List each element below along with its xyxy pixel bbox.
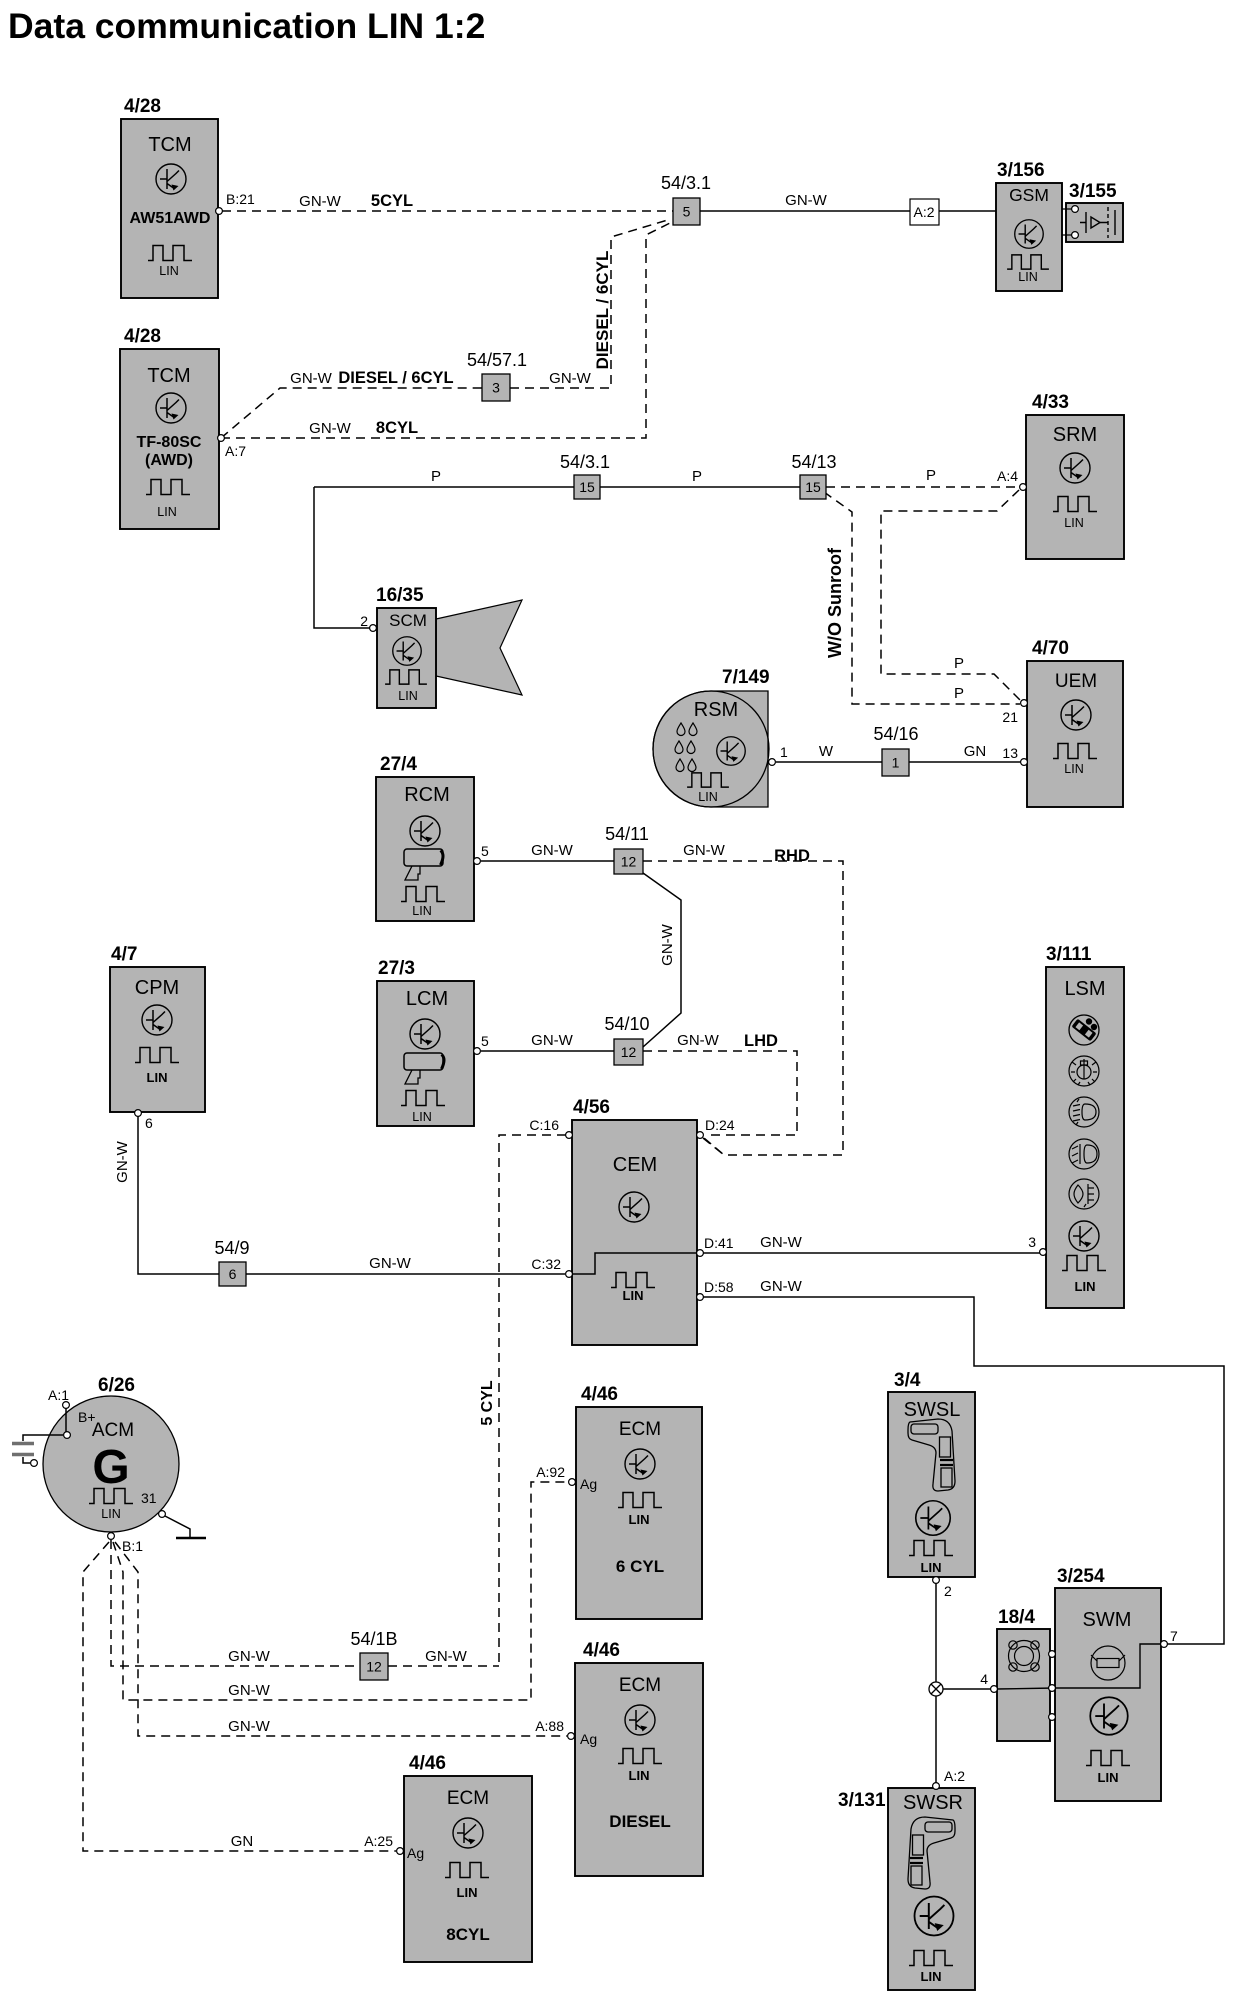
LIN square-wave icon GSM: [1007, 255, 1049, 269]
transistor icon CEM: [619, 1192, 649, 1222]
svg-text:GN-W: GN-W: [299, 193, 341, 210]
icon 18/4 steering wheel: [1009, 1641, 1040, 1672]
svg-text:LIN: LIN: [1064, 762, 1083, 776]
svg-text:7/149: 7/149: [722, 667, 770, 688]
pin ECM 6CYL A:92: [569, 1479, 576, 1486]
svg-text:D:58: D:58: [704, 1279, 734, 1295]
LIN square-wave icon TCM 4/28: [148, 246, 192, 261]
svg-text:12: 12: [366, 1659, 382, 1675]
svg-text:GN-W: GN-W: [683, 842, 725, 859]
svg-text:GN-W: GN-W: [290, 370, 332, 387]
svg-text:GN-W: GN-W: [228, 1682, 270, 1699]
icon raindrops: [677, 723, 685, 736]
svg-text:5: 5: [683, 204, 691, 220]
wire GN-W 5CYL from CEM C:16 down left side: [499, 1135, 566, 1666]
connector 54/13 pin 15: [800, 475, 826, 499]
svg-text:B:21: B:21: [226, 191, 255, 207]
svg-text:A:1: A:1: [48, 1387, 69, 1403]
svg-text:LIN: LIN: [1075, 1279, 1096, 1294]
svg-text:B:1: B:1: [122, 1538, 143, 1554]
pin RSM 1: [769, 759, 776, 766]
svg-text:3/156: 3/156: [997, 160, 1045, 181]
svg-text:GN-W: GN-W: [549, 370, 591, 387]
transistor icon SWM: [1090, 1697, 1128, 1735]
transistor icon LSM: [1069, 1221, 1099, 1251]
wire GN-W from ACM B:1 to ECM-6CYL A:92: [113, 1482, 568, 1700]
svg-text:54/16: 54/16: [873, 724, 918, 744]
svg-text:LIN: LIN: [1064, 516, 1083, 530]
svg-text:54/9: 54/9: [214, 1238, 249, 1258]
pin SCM 2: [370, 625, 377, 632]
module GSM 3/156: [996, 183, 1062, 291]
svg-text:ECM: ECM: [619, 1675, 661, 1696]
svg-text:GN-W: GN-W: [425, 1648, 467, 1665]
module RCM 27/4: [376, 777, 474, 921]
svg-text:13: 13: [1002, 745, 1018, 761]
icon 3/155 clutch/diode symbol: [1080, 207, 1115, 238]
icon SWSL steering wheel stalk: [908, 1419, 955, 1491]
transistor icon SWSL: [916, 1501, 951, 1536]
svg-text:A:25: A:25: [364, 1833, 393, 1849]
module SWM 3/254: [1055, 1588, 1161, 1801]
svg-text:12: 12: [621, 1044, 637, 1060]
svg-text:4: 4: [980, 1671, 988, 1687]
svg-text:GN-W: GN-W: [760, 1234, 802, 1251]
svg-text:D:24: D:24: [705, 1117, 735, 1133]
wire GN-W link from connector 54/11 to connector 54/10: [643, 873, 681, 1047]
svg-text:A:4: A:4: [997, 468, 1018, 484]
module LSM 3/111: [1046, 967, 1124, 1308]
wire GN from ACM B:1 to ECM-8CYL A:25: [83, 1542, 396, 1851]
wire P from connector 54/13 to SRM A:4: [826, 486, 1019, 488]
svg-text:27/3: 27/3: [378, 958, 415, 979]
svg-text:31: 31: [141, 1490, 157, 1506]
transistor icon ECM 8CYL: [453, 1818, 483, 1848]
svg-text:LIN: LIN: [398, 689, 417, 703]
LIN square-wave icon LCM: [401, 1091, 445, 1106]
svg-text:LIN: LIN: [1018, 270, 1037, 284]
wire GN-W LHD from connector 54/10 to CEM D:24: [643, 1051, 797, 1135]
svg-text:A:88: A:88: [535, 1718, 564, 1734]
svg-text:3: 3: [1028, 1234, 1036, 1250]
svg-text:1: 1: [780, 744, 788, 760]
wire GN-W from CEM D:41 to LSM pin 3: [703, 1252, 1041, 1254]
module SCM 16/35: [377, 608, 436, 708]
transistor icon SWSR: [915, 1897, 954, 1936]
svg-text:GN-W: GN-W: [785, 192, 827, 209]
wire from SWSL pin 2 to junction: [935, 1581, 937, 1682]
connector A:2 (inline): [910, 199, 939, 225]
svg-text:LIN: LIN: [159, 264, 178, 278]
wire GN-W from RCM pin 5 to connector 54/11: [481, 860, 614, 862]
svg-text:27/4: 27/4: [380, 754, 417, 775]
svg-text:5: 5: [481, 843, 489, 859]
module SCM 16/35 horn polygon: [436, 600, 522, 695]
transistor icon SCM: [393, 637, 422, 666]
svg-text:LIN: LIN: [412, 1110, 431, 1124]
icon SWM heated steering wheel: [1091, 1646, 1125, 1680]
svg-text:3/4: 3/4: [894, 1370, 921, 1391]
svg-text:54/3.1: 54/3.1: [560, 452, 610, 472]
svg-text:GN-W: GN-W: [531, 1032, 573, 1049]
icon RCM crash sensor: [404, 849, 443, 880]
svg-text:LIN: LIN: [1098, 1770, 1119, 1785]
wire GN-W 5CYL from TCM1 B:21 to connector 54/3.1 pin 5: [222, 210, 673, 212]
svg-text:W/O Sunroof: W/O Sunroof: [825, 547, 845, 658]
pin TCM2 A:7: [218, 435, 225, 442]
svg-text:DIESEL / 6CYL: DIESEL / 6CYL: [338, 369, 453, 387]
module RSM 7/149 (rain sensor, circle shape): [653, 691, 768, 807]
transistor icon ECM 6CYL: [625, 1449, 655, 1479]
pin GSM right upper: [1072, 206, 1079, 213]
pin CEM D:24: [697, 1132, 704, 1139]
svg-text:LIN: LIN: [412, 904, 431, 918]
svg-text:GN-W: GN-W: [531, 842, 573, 859]
LIN square-wave icon ECM 8CYL: [445, 1863, 489, 1878]
svg-text:SWM: SWM: [1083, 1609, 1132, 1631]
svg-text:4/70: 4/70: [1032, 638, 1069, 659]
svg-text:6/26: 6/26: [98, 1375, 135, 1396]
svg-text:LIN: LIN: [921, 1560, 942, 1575]
svg-text:GSM: GSM: [1009, 185, 1049, 205]
module CPM 4/7: [110, 967, 205, 1112]
wire GN-W from connector 54/1B to 5CYL riser: [388, 1665, 499, 1667]
wire GN-W from ACM B:1 to ECM-DIESEL A:88: [115, 1542, 567, 1736]
pin CEM D:58: [697, 1294, 704, 1301]
pin SWSR A:2: [933, 1783, 940, 1790]
svg-text:D:41: D:41: [704, 1235, 734, 1251]
LIN square-wave icon CPM: [135, 1048, 179, 1063]
svg-text:RHD: RHD: [774, 847, 810, 865]
module UEM 4/70: [1027, 661, 1123, 807]
transistor icon RCM: [410, 816, 440, 846]
svg-text:54/1B: 54/1B: [350, 1629, 397, 1649]
svg-text:GN-W: GN-W: [228, 1718, 270, 1735]
svg-text:Ag: Ag: [407, 1845, 424, 1861]
svg-text:12: 12: [621, 854, 637, 870]
svg-text:8CYL: 8CYL: [376, 419, 418, 437]
svg-text:4/33: 4/33: [1032, 392, 1069, 413]
svg-text:ECM: ECM: [447, 1788, 489, 1809]
svg-text:SWSR: SWSR: [903, 1792, 963, 1814]
pin CEM C:16: [566, 1132, 573, 1139]
svg-text:ECM: ECM: [619, 1419, 661, 1440]
wire GN-W DIESEL/6CYL from connector 54/57.1 up to connector 54/3.1 pin 5: [510, 219, 671, 388]
module TCM 4/28 (TF-80SC AWD): [120, 349, 219, 529]
LIN square-wave icon CEM: [611, 1273, 655, 1288]
svg-text:4/46: 4/46: [583, 1640, 620, 1661]
pin CEM D:41: [697, 1250, 704, 1257]
pin ECM DIESEL A:88: [568, 1733, 575, 1740]
module ECM 4/46 (DIESEL): [575, 1663, 703, 1876]
junction node (circle-X): [929, 1682, 943, 1696]
svg-text:LIN: LIN: [457, 1885, 478, 1900]
icon SWSR steering wheel stalk: [908, 1817, 955, 1889]
svg-text:GN-W: GN-W: [114, 1140, 131, 1182]
connector 54/1B pin 12: [360, 1653, 388, 1680]
svg-text:GN-W: GN-W: [760, 1278, 802, 1295]
svg-text:54/57.1: 54/57.1: [467, 350, 527, 370]
connector 54/3.1 pin 5: [673, 198, 700, 225]
svg-text:7: 7: [1170, 1628, 1178, 1644]
wire W from RSM pin 1 to connector 54/16: [776, 761, 882, 763]
icon LSM rear fog lamp: [1069, 1179, 1099, 1209]
svg-text:4/46: 4/46: [409, 1753, 446, 1774]
wire ACM 31 to ground: [165, 1516, 190, 1538]
pin ACM B:1: [108, 1533, 115, 1540]
wire stub at CEM D:24 joining RHD net: [703, 1138, 724, 1155]
wire GN from connector 54/16 to UEM pin 13: [909, 761, 1021, 763]
svg-text:G: G: [92, 1441, 129, 1494]
LIN square-wave icon SWSL: [909, 1541, 953, 1556]
wire GN-W from CPM pin 6 down to connector 54/9: [138, 1116, 219, 1274]
svg-text:LIN: LIN: [157, 505, 176, 519]
svg-text:CEM: CEM: [613, 1154, 657, 1176]
pin CEM C:32: [566, 1271, 573, 1278]
pin ACM 31: [159, 1511, 166, 1518]
svg-text:Data communication LIN 1:2: Data communication LIN 1:2: [8, 6, 485, 46]
svg-text:DIESEL / 6CYL: DIESEL / 6CYL: [593, 251, 612, 370]
connector 54/9 pin 6: [219, 1262, 246, 1286]
svg-text:54/13: 54/13: [791, 452, 836, 472]
svg-text:Ag: Ag: [580, 1476, 597, 1492]
connector 54/10 pin 12: [614, 1039, 643, 1065]
transistor icon RSM: [717, 737, 746, 766]
svg-text:3/131: 3/131: [838, 1790, 886, 1811]
LIN square-wave icon SWM: [1086, 1751, 1130, 1766]
svg-text:A:2: A:2: [913, 204, 934, 220]
svg-text:LIN: LIN: [629, 1768, 650, 1783]
wire internal SWM pin to pin 7: [997, 1644, 1161, 1689]
connector 54/3.1 pin 15: [574, 475, 600, 499]
svg-text:3/111: 3/111: [1046, 944, 1092, 965]
svg-text:5 CYL: 5 CYL: [479, 1380, 496, 1426]
component 18/4 (clock spring): [997, 1629, 1050, 1741]
wire GN-W from connector 54/9 to CEM C:32: [246, 1273, 565, 1275]
svg-text:LIN: LIN: [101, 1507, 120, 1521]
svg-text:GN-W: GN-W: [659, 923, 676, 965]
icon LCM crash sensor: [404, 1053, 444, 1084]
svg-text:15: 15: [805, 479, 821, 495]
svg-text:3: 3: [492, 380, 500, 396]
LIN square-wave icon SWSR: [909, 1951, 953, 1966]
svg-text:TCM: TCM: [147, 365, 190, 387]
svg-text:ACM: ACM: [92, 1420, 134, 1441]
svg-text:CPM: CPM: [135, 977, 179, 999]
pin stubs GSM to 3/155: [1062, 209, 1072, 235]
pin SWM left upper: [1049, 1651, 1056, 1658]
wire ACM A:1 to B+: [65, 1408, 67, 1432]
svg-text:3/155: 3/155: [1069, 181, 1117, 202]
svg-text:LIN: LIN: [629, 1512, 650, 1527]
module SRM 4/33: [1026, 415, 1124, 559]
svg-text:LIN: LIN: [921, 1969, 942, 1984]
svg-text:GN-W: GN-W: [369, 1255, 411, 1272]
svg-text:GN-W: GN-W: [309, 420, 351, 437]
svg-text:4/28: 4/28: [124, 96, 161, 117]
svg-text:TCM: TCM: [148, 134, 191, 156]
pin SWM 7: [1161, 1641, 1168, 1648]
pin ECM 8CYL A:25: [397, 1848, 404, 1855]
pin SWM left lower: [1049, 1714, 1056, 1721]
svg-text:B+: B+: [78, 1409, 96, 1425]
svg-text:LCM: LCM: [406, 988, 448, 1010]
icon LSM parking lamp: [1069, 1056, 1099, 1086]
pin 18/4 4: [991, 1686, 998, 1693]
svg-text:SRM: SRM: [1053, 424, 1097, 446]
svg-text:A:7: A:7: [225, 443, 246, 459]
pin SWM left middle: [1049, 1685, 1056, 1692]
svg-text:P: P: [431, 468, 441, 485]
svg-text:15: 15: [579, 479, 595, 495]
transistor icon GSM: [1015, 220, 1044, 249]
module ACM 6/26 (generator, circle): [43, 1396, 179, 1532]
wire from junction to 18/4 pin 4: [943, 1688, 991, 1690]
pin CPM 6: [135, 1110, 142, 1117]
svg-text:3/254: 3/254: [1057, 1566, 1105, 1587]
module CEM 4/56: [572, 1120, 697, 1345]
wire GN-W RHD from connector 54/11 to CEM D:24: [643, 861, 843, 1155]
svg-text:LIN: LIN: [698, 790, 717, 804]
svg-text:Ag: Ag: [580, 1731, 597, 1747]
connector 54/57.1 pin 3: [482, 374, 510, 401]
pin UEM 13: [1021, 759, 1028, 766]
svg-text:P: P: [954, 685, 964, 702]
svg-text:4/28: 4/28: [124, 326, 161, 347]
svg-text:TF-80SC: TF-80SC: [137, 434, 202, 451]
svg-text:P: P: [926, 467, 936, 484]
svg-text:54/11: 54/11: [605, 824, 649, 844]
svg-text:GN-W: GN-W: [228, 1648, 270, 1665]
svg-text:P: P: [954, 655, 964, 672]
svg-text:5CYL: 5CYL: [371, 192, 413, 210]
wire internal CEM link C:32 to D:41: [572, 1253, 697, 1274]
svg-text:DIESEL: DIESEL: [609, 1812, 670, 1831]
svg-text:(AWD): (AWD): [145, 452, 193, 469]
wire GN-W 8CYL from TCM2 A:7 to connector 54/3.1 pin 5: [221, 222, 672, 438]
svg-text:8CYL: 8CYL: [446, 1925, 489, 1944]
LIN square-wave icon ECM DIESEL: [618, 1749, 662, 1764]
LIN square-wave icon UEM: [1053, 744, 1097, 759]
svg-text:RCM: RCM: [404, 784, 450, 806]
module TCM 4/28 (AW51AWD): [121, 119, 218, 298]
module SWSR 3/131: [888, 1788, 975, 1990]
connector 54/11 pin 12: [614, 849, 643, 874]
svg-text:6 CYL: 6 CYL: [616, 1557, 664, 1576]
svg-text:21: 21: [1002, 709, 1018, 725]
pin GSM right lower: [1072, 232, 1079, 239]
svg-text:C:32: C:32: [531, 1256, 561, 1272]
svg-text:18/4: 18/4: [998, 1607, 1035, 1628]
transistor icon LCM: [410, 1019, 440, 1049]
svg-text:16/35: 16/35: [376, 585, 424, 606]
svg-text:LHD: LHD: [744, 1032, 778, 1050]
svg-text:4/56: 4/56: [573, 1097, 610, 1118]
svg-text:4/7: 4/7: [111, 944, 137, 965]
pin RCM 5: [474, 858, 481, 865]
svg-text:A:2: A:2: [944, 1768, 965, 1784]
svg-text:54/10: 54/10: [604, 1014, 649, 1034]
LIN square-wave icon ECM 6CYL: [618, 1493, 662, 1508]
svg-text:W: W: [819, 743, 834, 760]
wire GN-W from LCM pin 5 to connector 54/10: [481, 1050, 614, 1052]
svg-text:C:16: C:16: [529, 1117, 559, 1133]
wire GN-W from CEM D:58 to SWM pin 7: [703, 1297, 1224, 1644]
LIN square-wave icon RCM: [401, 887, 445, 902]
svg-text:SWSL: SWSL: [904, 1399, 961, 1421]
svg-text:P: P: [692, 468, 702, 485]
connector 54/16 pin 1: [882, 749, 909, 776]
svg-text:1: 1: [892, 755, 900, 771]
transistor icon TCM 4/28: [156, 164, 186, 194]
svg-text:LIN: LIN: [623, 1288, 644, 1303]
svg-text:GN: GN: [964, 743, 987, 760]
LIN square-wave icon SRM: [1053, 497, 1097, 512]
icon LSM front fog lamp: [1069, 1139, 1099, 1169]
svg-text:A:92: A:92: [536, 1464, 565, 1480]
transistor icon UEM: [1061, 700, 1091, 730]
svg-text:RSM: RSM: [694, 699, 738, 721]
svg-text:SCM: SCM: [389, 611, 427, 630]
pin TCM1 B:21: [216, 208, 223, 215]
LIN square-wave icon ACM: [89, 1489, 133, 1504]
pin ACM A:1: [63, 1402, 70, 1409]
wire battery to ACM case: [23, 1457, 30, 1463]
svg-text:AW51AWD: AW51AWD: [130, 210, 211, 227]
LIN square-wave icon LSM: [1062, 1256, 1106, 1271]
pin LCM 5: [474, 1048, 481, 1055]
pin SWSL 2: [933, 1577, 940, 1584]
wire P solid from SCM branch through connector 54/3.1 pin 15 to connector 54/13 pin 15: [314, 486, 800, 488]
transistor icon SRM: [1060, 453, 1090, 483]
svg-text:GN-W: GN-W: [677, 1032, 719, 1049]
wire P loop from SRM A:4 to UEM pin 21: [881, 490, 1020, 700]
icon LSM low beam: [1069, 1097, 1099, 1127]
svg-text:LSM: LSM: [1064, 978, 1105, 1000]
pin SRM A:4: [1020, 484, 1027, 491]
LIN square-wave icon SCM: [385, 670, 427, 684]
transistor icon ECM DIESEL: [625, 1705, 655, 1735]
icon LSM turn-signal lamp: [1069, 1015, 1099, 1045]
module ECM 4/46 (6 CYL): [576, 1407, 702, 1619]
svg-text:2: 2: [360, 613, 368, 629]
pin ACM case: [31, 1460, 38, 1467]
wire GN-W DIESEL/6CYL from TCM2 A:7 to connector 54/57.1: [221, 388, 482, 438]
svg-text:2: 2: [944, 1583, 952, 1599]
LIN square-wave icon RSM: [687, 773, 729, 787]
wire branch down to SCM pin 2: [314, 487, 370, 628]
wire B+ to battery: [23, 1435, 63, 1441]
transistor icon TCM 4/28 TF-80SC: [156, 393, 186, 423]
LIN square-wave icon TCM TF-80SC: [146, 480, 190, 495]
svg-text:GN: GN: [231, 1833, 254, 1850]
module SWSL 3/4: [888, 1392, 975, 1577]
svg-text:LIN: LIN: [147, 1070, 168, 1085]
wire GN-W from ACM B:1 to connector 54/1B: [111, 1540, 360, 1666]
svg-text:UEM: UEM: [1055, 671, 1097, 692]
wire GN-W from connector 54/3.1 pin 5 to GSM A:2: [700, 210, 996, 212]
pin LSM 3: [1040, 1249, 1047, 1256]
transistor icon CPM: [142, 1005, 172, 1035]
svg-text:6: 6: [229, 1266, 237, 1282]
module LCM 27/3: [377, 981, 474, 1126]
svg-text:5: 5: [481, 1033, 489, 1049]
wire P W/O Sunroof from connector 54/13 to UEM pin 21: [824, 492, 1020, 704]
module ECM 4/46 (8CYL): [404, 1776, 532, 1962]
wire from junction to SWSR A:2: [935, 1696, 937, 1783]
pin UEM 21: [1021, 700, 1028, 707]
svg-text:6: 6: [145, 1115, 153, 1131]
